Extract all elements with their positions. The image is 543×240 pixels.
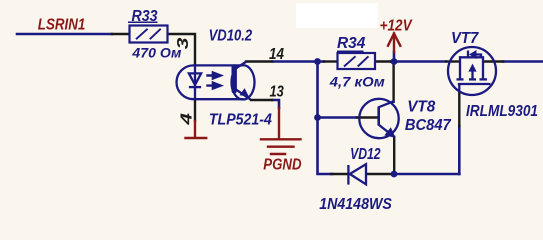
- svg-text:3: 3: [175, 38, 192, 50]
- svg-text:VD12: VD12: [350, 146, 381, 163]
- svg-text:1N4148WS: 1N4148WS: [319, 196, 392, 213]
- svg-text:VT7: VT7: [451, 30, 479, 47]
- svg-text:VT8: VT8: [407, 99, 435, 116]
- svg-text:VD10.2: VD10.2: [209, 28, 253, 45]
- svg-text:IRLML9301: IRLML9301: [466, 103, 538, 120]
- svg-text:+12V: +12V: [380, 17, 413, 34]
- svg-text:TLP521-4: TLP521-4: [209, 111, 272, 128]
- svg-text:13: 13: [270, 84, 284, 101]
- svg-text:4: 4: [179, 113, 196, 126]
- svg-text:PGND: PGND: [263, 156, 302, 173]
- svg-text:LSRIN1: LSRIN1: [38, 16, 86, 33]
- svg-text:BC847: BC847: [405, 117, 452, 134]
- svg-text:14: 14: [269, 46, 284, 63]
- svg-text:R34: R34: [337, 35, 365, 52]
- svg-text:4,7 кОм: 4,7 кОм: [329, 73, 386, 89]
- svg-text:R33: R33: [132, 8, 158, 25]
